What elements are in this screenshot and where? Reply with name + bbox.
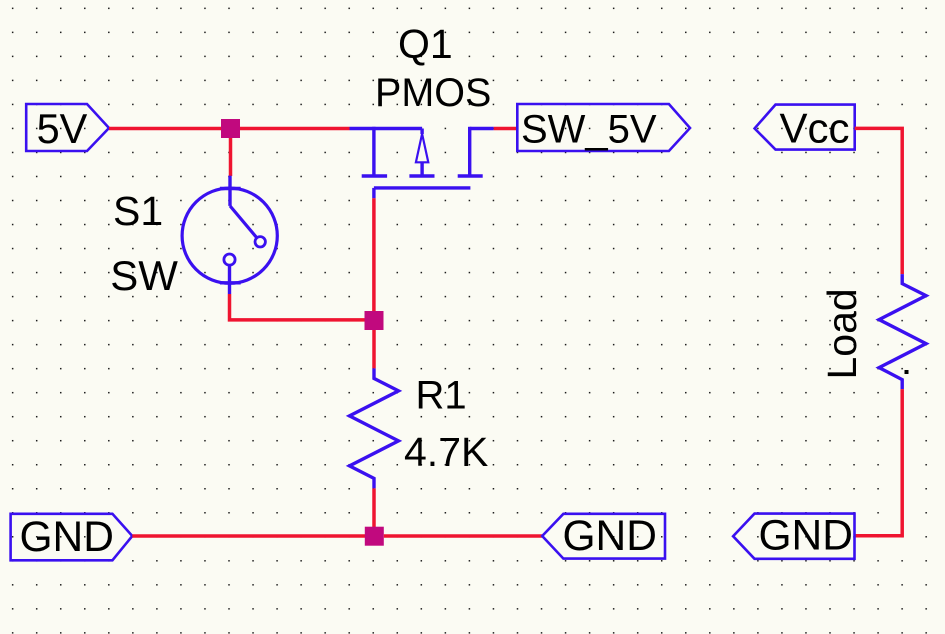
svg-text:SW: SW [110, 252, 178, 299]
value dot of Load [905, 370, 909, 374]
wire junction to switch S1 [229, 138, 233, 176]
junction node gate/R1 [365, 311, 384, 330]
net flag GND middle [542, 514, 665, 559]
svg-text:Vcc: Vcc [780, 105, 850, 152]
net flag GND left [11, 514, 133, 561]
svg-text:GND: GND [563, 513, 657, 560]
svg-text:4.7K: 4.7K [404, 429, 488, 475]
resistor Load [879, 274, 926, 389]
wire Q1 gate down to middle junction [372, 198, 376, 315]
net flag Vcc [755, 105, 855, 150]
wire Load to GND right [855, 389, 903, 536]
junction node 5V [221, 119, 240, 138]
wire R1 to ground junction [372, 488, 376, 530]
wire Vcc to Load resistor [855, 128, 903, 274]
resistor R1 [350, 368, 399, 488]
svg-text:PMOS: PMOS [375, 71, 491, 115]
wire S1 to middle junction [230, 294, 375, 320]
wire junction to Q1 source pin [240, 127, 350, 131]
net flag 5V [26, 104, 109, 151]
junction node ground [365, 527, 384, 546]
svg-text:GND: GND [759, 512, 853, 559]
wire ground rail right [384, 534, 542, 538]
wire junction to R1 [372, 330, 376, 368]
wire Q1 drain to SW_5V flag [494, 127, 518, 131]
net flag GND right [733, 514, 854, 559]
svg-text:S1: S1 [113, 188, 163, 234]
svg-text:Q1: Q1 [398, 21, 453, 67]
switch S1 [182, 176, 277, 294]
svg-text:GND: GND [20, 514, 114, 561]
svg-text:R1: R1 [416, 373, 467, 417]
svg-text:Load: Load [819, 288, 865, 379]
transistor Q1 [350, 127, 494, 199]
wire ground rail left [132, 534, 374, 538]
wire 5V flag to junction [109, 127, 230, 131]
svg-text:SW_5V: SW_5V [521, 107, 657, 151]
net flag SW_5V [517, 104, 690, 151]
svg-text:5V: 5V [37, 105, 88, 152]
